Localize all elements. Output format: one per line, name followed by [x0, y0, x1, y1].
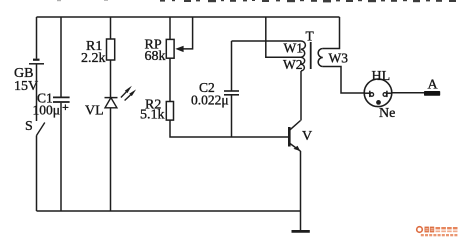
- wire battery to switch: [36, 65, 38, 122]
- transformer winding W1: [301, 41, 305, 57]
- svg-text:100μ: 100μ: [33, 103, 61, 118]
- svg-text:A: A: [428, 78, 439, 93]
- svg-text:VL: VL: [85, 104, 104, 119]
- wire C2 to W1 top: [232, 40, 302, 42]
- wire rail to center tap: [266, 17, 301, 57]
- LED VL: [105, 98, 118, 108]
- svg-text:Ne: Ne: [379, 106, 395, 121]
- wire emitter to bottom rail: [300, 151, 302, 211]
- wire R1 branch upper: [110, 17, 112, 39]
- wire RP to R2: [169, 58, 171, 101]
- svg-text:0.022μ: 0.022μ: [191, 93, 229, 108]
- battery GB: [29, 60, 44, 64]
- RP wiper arrow: [175, 17, 192, 52]
- switch S: [37, 123, 45, 136]
- wire C1 branch upper: [60, 17, 62, 97]
- wire rail corner to W3 top: [323, 17, 340, 49]
- svg-text:T: T: [306, 29, 315, 44]
- svg-text:15V: 15V: [14, 79, 38, 94]
- wire C2 bottom lead: [231, 95, 233, 137]
- capacitor C2: [224, 91, 239, 95]
- wire R2 bottom to base wire: [170, 120, 289, 137]
- svg-text:HL: HL: [372, 69, 391, 84]
- svg-text:W3: W3: [329, 51, 349, 66]
- svg-text:V: V: [302, 129, 312, 144]
- transformer winding W3: [318, 49, 323, 67]
- cropped text row at top edge: [57, 0, 456, 2]
- wire W2 bottom to collector: [300, 71, 302, 121]
- transformer core: [310, 42, 312, 69]
- svg-text:2.2k: 2.2k: [81, 51, 106, 66]
- watermark logo: [417, 227, 458, 237]
- ground: [292, 211, 310, 231]
- wire LED to bottom rail: [110, 108, 112, 211]
- potentiometer RP: [166, 39, 174, 58]
- neon lamp HL: [364, 79, 392, 107]
- capacitor C1: [53, 97, 70, 102]
- svg-text:68k: 68k: [145, 49, 166, 64]
- wire R1 to LED: [110, 60, 112, 98]
- wire left branch upper (rail to battery): [36, 17, 38, 59]
- wire C2 top lead: [231, 41, 233, 91]
- resistor R1: [107, 39, 115, 60]
- wire bottom rail: [37, 210, 301, 212]
- wire RP branch upper: [169, 17, 171, 39]
- wire switch to bottom rail: [36, 136, 38, 212]
- svg-text:W1: W1: [284, 41, 304, 56]
- LED emission arrows: [121, 86, 136, 101]
- terminal A: [424, 91, 440, 96]
- wire lamp to terminal A: [392, 92, 424, 94]
- transistor V: [289, 121, 300, 152]
- svg-text:S: S: [25, 119, 33, 134]
- resistor R2: [166, 102, 173, 121]
- svg-text:5.1k: 5.1k: [140, 108, 165, 123]
- svg-text:W2: W2: [283, 57, 303, 72]
- transformer winding W2: [301, 57, 305, 71]
- wire top supply rail: [37, 16, 340, 18]
- svg-text:+: +: [62, 100, 69, 114]
- wire C1 branch lower: [60, 103, 62, 211]
- wire W3 bottom to lamp: [323, 67, 364, 94]
